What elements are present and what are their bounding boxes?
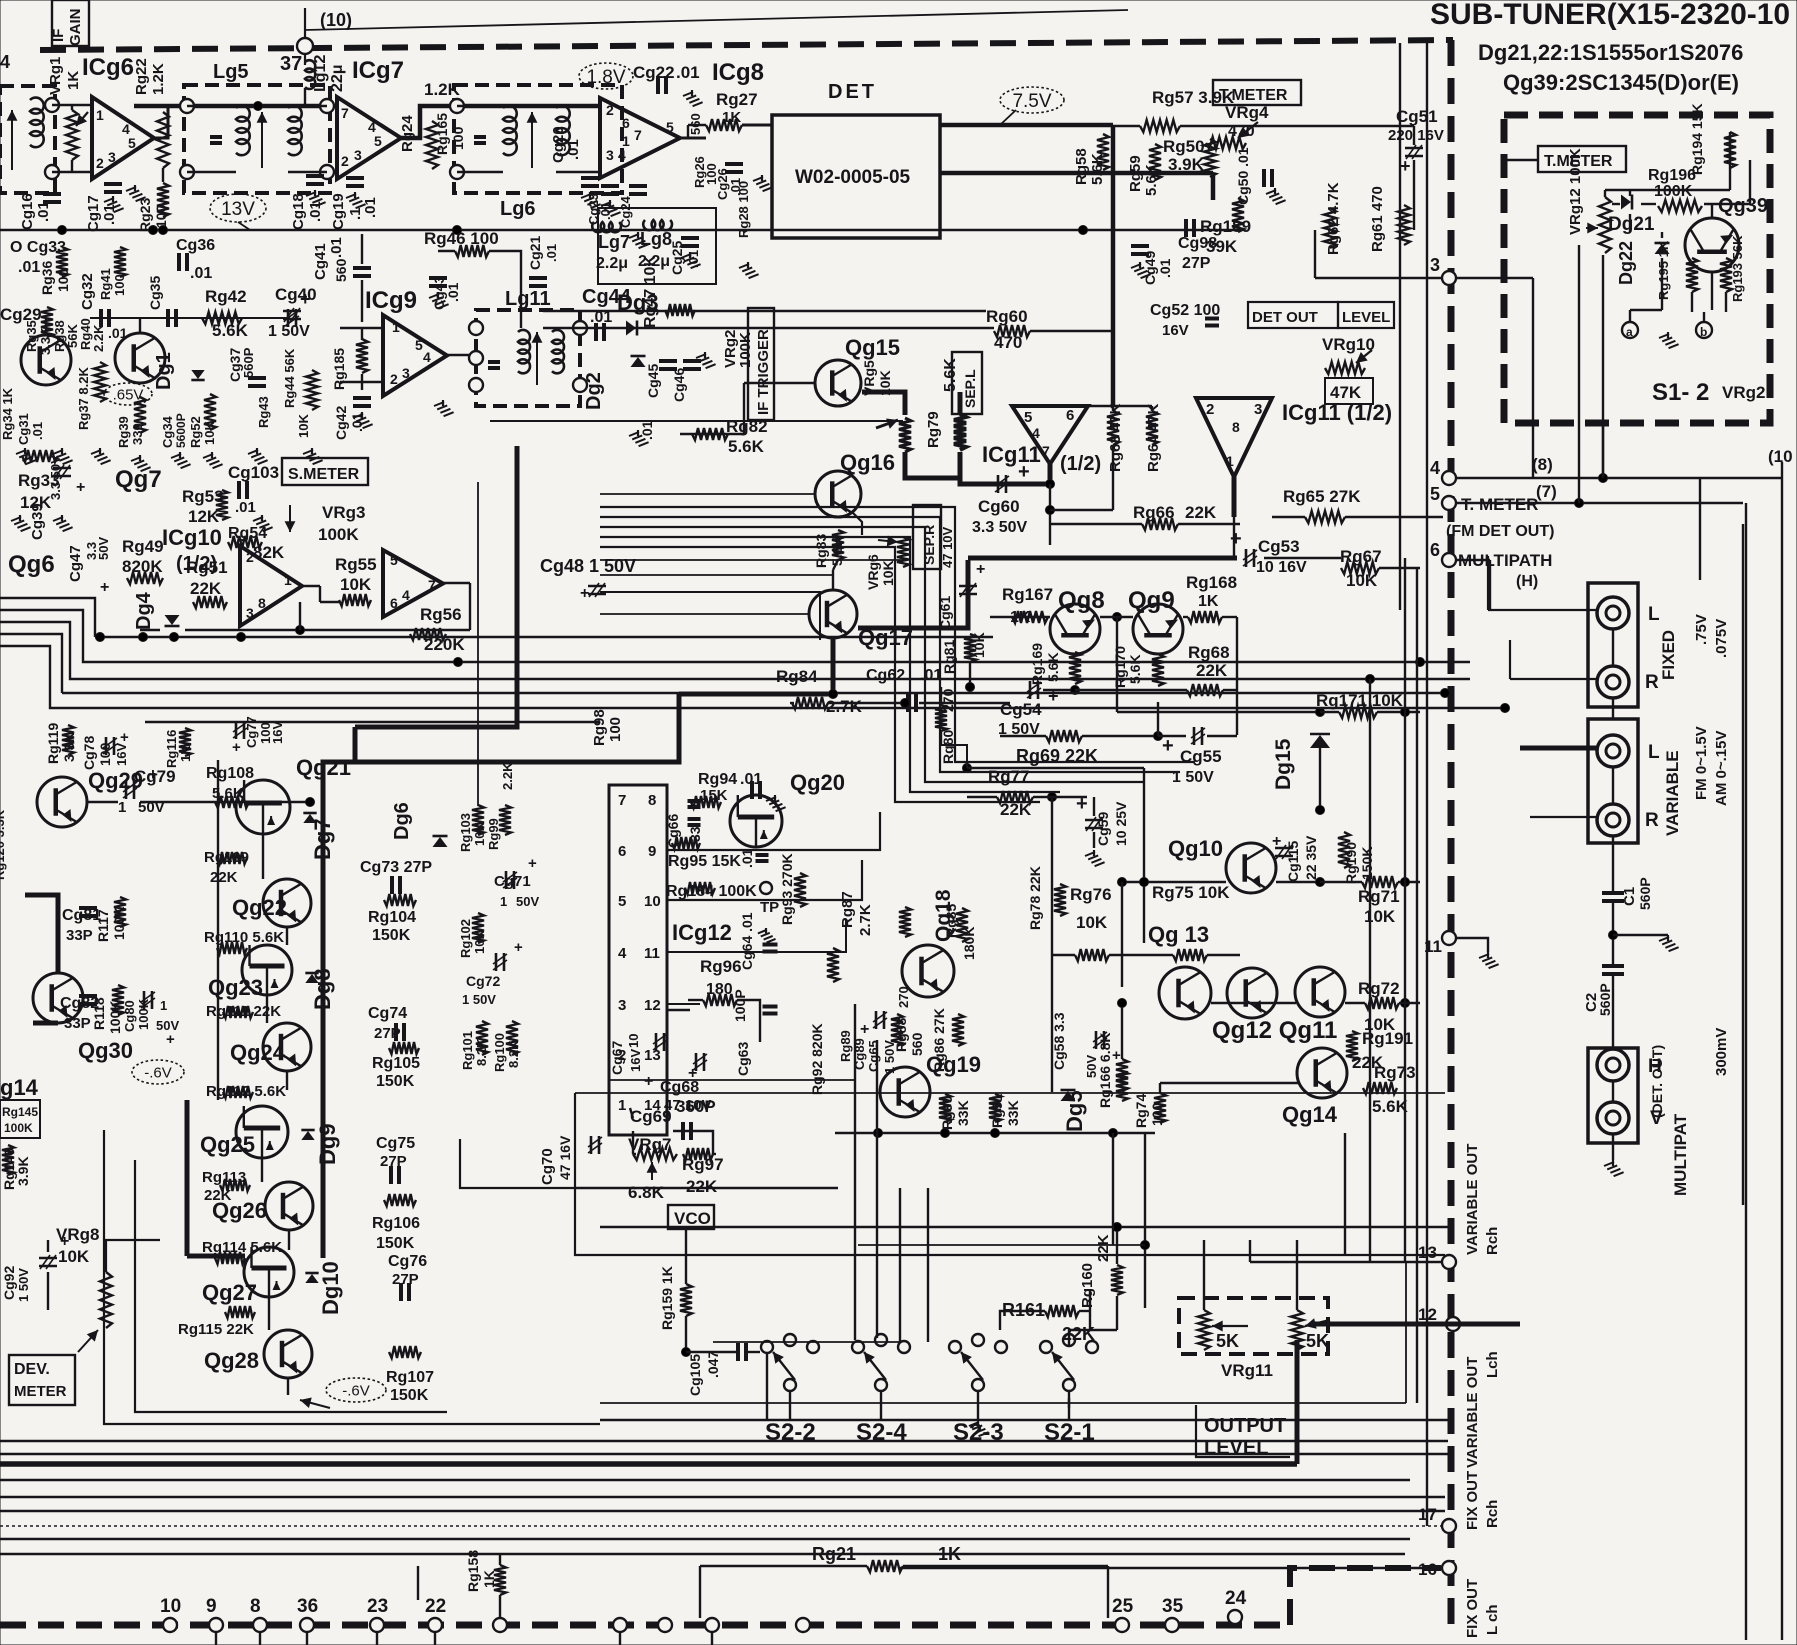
wire Qg8 base row [990,616,1050,618]
terminal Lg11 d [573,321,587,335]
ground S2-3 [977,1391,979,1420]
resistor Rg110 [217,942,247,954]
svg-text:Dg6: Dg6 [391,802,413,840]
svg-text:10K: 10K [1076,913,1108,932]
resistor Rg185 [356,339,368,373]
svg-text:7: 7 [634,127,642,143]
wire band 6 dotted [0,1525,1443,1527]
svg-text:IF: IF [50,29,67,42]
capacitor Cg46 [683,361,701,369]
capacitor Cg65 hatched [873,1011,887,1029]
label T.METER S1 box [1538,146,1626,172]
svg-text:10K: 10K [202,421,217,445]
svg-text:.01: .01 [639,420,655,440]
svg-text:Cg64 .01: Cg64 .01 [739,912,755,970]
transistor Qg15 [815,360,861,406]
svg-text:1: 1 [96,107,104,123]
svg-text:.01: .01 [565,139,582,160]
transistor Qg7 left [115,333,165,383]
wire mid h2 [543,327,994,329]
resistor Rg94 [691,796,721,808]
wire right vert from pin7 [1742,524,1744,1205]
resistor Rg109 [217,852,247,864]
wire bundle down right [954,507,956,540]
resistor Rg95 [672,837,700,849]
wire ICg11 apex thick [1048,464,1053,484]
voltage bubble 13V [210,194,266,222]
coil Lg11 primary [518,330,530,373]
svg-text:Dg2: Dg2 [583,372,605,410]
svg-text:16V: 16V [114,743,129,766]
wire band thick [0,1461,1297,1467]
transistor Qg17 [809,590,857,638]
terminal bus 25 [1115,1618,1129,1632]
svg-text:Rg73: Rg73 [1374,1063,1416,1082]
wire VRg12 down [1602,255,1604,478]
svg-text:100: 100 [1149,1102,1165,1126]
diode Dg4 [165,615,180,626]
wire Qg rows lower [1160,1082,1298,1084]
switch S2-4 [852,1341,864,1353]
node bus dots [96,633,105,642]
wire Rg63 tops [1088,405,1152,407]
svg-text:Cg41: Cg41 [312,243,329,280]
wire vert x1427 [1426,43,1428,1526]
jack FIXED R [1597,666,1629,698]
svg-text:Lg7: Lg7 [598,232,630,252]
svg-text:1K: 1K [1198,593,1219,610]
svg-text:300mV: 300mV [1713,1028,1730,1076]
svg-text:2.2μ: 2.2μ [638,253,670,270]
ground Cg18 [306,190,326,206]
wire band 7 [0,1538,1410,1540]
wire h 1245 [858,1244,1145,1246]
terminal bus x4 [705,1618,719,1632]
svg-text:Cg39: Cg39 [29,503,46,540]
svg-text:Rg64 47K: Rg64 47K [1145,403,1162,472]
svg-text:3: 3 [1254,401,1262,418]
svg-text:100K: 100K [107,1001,123,1034]
svg-text:DET OUT: DET OUT [1252,309,1318,326]
svg-text:100K: 100K [111,907,127,940]
capacitor Cg24 [629,186,647,194]
svg-text:330: 330 [130,423,145,445]
svg-text:6: 6 [1066,407,1074,424]
svg-text:Rg100: Rg100 [492,1033,507,1072]
capacitor Cg25 [681,238,699,246]
svg-text:Cg72: Cg72 [466,973,500,989]
label OUTPUT LEVEL box [1196,1405,1290,1457]
wire thick fet cluster join [187,1254,245,1259]
terminal a [1622,322,1638,338]
svg-text:Rg54: Rg54 [228,525,267,542]
capacitor Cg55 hatched [1191,727,1205,745]
resistor Rg68 [1187,684,1223,696]
svg-text:+: + [644,1073,653,1090]
wire fet cluster verticals [261,1158,263,1182]
svg-text:Cg21: Cg21 [527,236,543,270]
svg-text:Rg105: Rg105 [372,1055,420,1072]
voltage bubble 7.5V [1000,87,1064,113]
svg-text:Rg94: Rg94 [698,771,737,788]
wire fixed R feed [1509,640,1511,679]
ground row a [16,448,36,464]
wire S1-2 internals [1612,203,1620,205]
svg-text:Rg84: Rg84 [776,667,818,686]
svg-text:Rg107: Rg107 [386,1369,434,1386]
svg-text:Cg76: Cg76 [388,1253,427,1270]
node 13V e [1079,226,1088,235]
resistor Rg36 [56,247,68,277]
wire thick out bus [968,556,1237,561]
resistor Rg194 [1724,132,1736,168]
svg-text:100P: 100P [732,989,748,1022]
wire pin3 [1315,277,1443,279]
capacitor Cg35 [168,309,176,327]
wire Rg96 loop [688,999,703,1001]
svg-text:Rg56: Rg56 [420,605,462,624]
wire band 8 [0,1553,1405,1555]
svg-text:1: 1 [500,894,507,909]
wire long h 560 [600,559,905,561]
svg-text:GAIN: GAIN [67,9,84,47]
terminal Lg11 b [469,351,483,365]
resistor Rg41 [114,247,126,277]
capacitor Cg64 [763,945,778,952]
resistor Rg59 [1149,144,1161,180]
ground ICg6 pin [126,185,146,201]
svg-text:Rg39: Rg39 [116,416,131,448]
wire pot2 thick down [1295,1340,1300,1464]
svg-text:Qg22: Qg22 [232,895,287,920]
svg-text:Rg184 100K: Rg184 100K [666,883,757,900]
svg-text:560P: 560P [1637,877,1653,910]
wire pin13 row [1250,1261,1443,1263]
wire box lines h [575,1187,838,1189]
wire 13V row [90,317,290,319]
test point TP [760,882,772,894]
label SEP.L box [952,352,982,414]
wire arrow Lg11 [532,332,543,385]
svg-text:Cg55: Cg55 [1180,747,1222,766]
wire Qg39 line [1578,245,1580,503]
terminal Lg5 bl [180,165,194,179]
op-amp ICg8 [600,98,680,178]
svg-text:Cg59: Cg59 [1095,812,1111,846]
svg-text:Rg44 56K: Rg44 56K [282,348,297,408]
svg-text:+: + [860,1021,869,1038]
svg-text:2: 2 [96,155,104,171]
ground Cg25 [681,252,701,268]
svg-text:5.6K: 5.6K [1045,652,1061,682]
ground Cg103 [253,515,273,531]
resistor Rg108 [215,796,249,808]
svg-text:Rg27: Rg27 [716,90,758,109]
resistor Rg49 [127,572,163,584]
svg-text:+: + [76,479,85,496]
svg-text:22K: 22K [686,1177,718,1196]
svg-text:Dg1: Dg1 [153,352,175,390]
svg-text:470: 470 [994,333,1022,352]
svg-text:Cg60: Cg60 [978,497,1020,516]
svg-text:180K: 180K [961,927,977,960]
svg-text:5K: 5K [1306,1331,1329,1351]
svg-text:3.3K: 3.3K [61,732,77,762]
wire pin16 row [900,1567,1443,1569]
svg-text:5.6K: 5.6K [728,437,765,456]
IF transformer Lg11 dashed box [476,310,580,406]
transistor Qg18 [902,945,954,997]
svg-text:DEV.: DEV. [14,1361,50,1378]
svg-text:VARIABLE OUT: VARIABLE OUT [1464,1144,1481,1255]
svg-text:.075V: .075V [1713,619,1730,658]
wire thick top corner [355,446,517,727]
svg-text:2: 2 [246,549,254,565]
svg-text:Qg7: Qg7 [115,466,162,493]
wire Rg65 row [1272,516,1305,518]
svg-text:Rg22: Rg22 [133,58,150,95]
wire node 10 drop [304,8,306,65]
wire Rg57 row [1113,125,1140,127]
svg-text:VRg5: VRg5 [861,360,877,396]
resistor Rg23 [157,183,169,217]
ground Cg26b [753,175,773,191]
capacitor Cg69 [683,1122,691,1140]
svg-text:Rg109: Rg109 [204,849,249,866]
svg-text:4: 4 [1430,458,1440,478]
svg-text:27P: 27P [392,1271,419,1288]
resistor Rg84 [792,697,828,709]
wire out bus thick [134,104,330,109]
ground row b [53,448,73,464]
capacitor Cg17 [104,184,122,192]
svg-text:33P: 33P [66,927,93,944]
wire Cg41 stub [361,234,363,264]
wire icg10b vert [469,583,471,630]
wire vert x1400t [1399,43,1401,610]
resistor Rg83 [832,530,844,560]
svg-text:1 50V: 1 50V [268,323,310,340]
svg-text:Cg49: Cg49 [1142,251,1158,285]
terminal bus 35 [1165,1618,1179,1632]
svg-text:10 16V: 10 16V [1256,559,1307,576]
svg-text:1.2K: 1.2K [150,63,167,95]
svg-text:Cg35: Cg35 [147,276,163,310]
terminal bus 24 [1228,1610,1242,1624]
svg-text:22K: 22K [190,579,222,598]
ground row e [171,452,191,468]
svg-text:FM 0~1.5V: FM 0~1.5V [1693,726,1710,800]
svg-text:Rg78 22K: Rg78 22K [1027,866,1043,930]
wire Dg15 down [1319,748,1321,810]
resistor Rg55 [339,594,371,606]
resistor Rg171 [1339,706,1377,718]
svg-text:(FM DET OUT): (FM DET OUT) [1446,523,1554,540]
resistor Rg105 [389,1042,419,1054]
svg-text:Qg 13: Qg 13 [1148,922,1209,947]
svg-text:Lg11: Lg11 [505,288,551,310]
svg-text:Dg10: Dg10 [318,1261,343,1315]
wire Qg19 bottom row [835,1132,1155,1134]
svg-text:5: 5 [1024,409,1032,426]
svg-text:22: 22 [425,1596,446,1617]
wire R161 loop [1000,1311,1045,1330]
wire staircase bundle [600,507,1195,762]
svg-text:7: 7 [1042,443,1050,459]
ground row h [303,448,323,464]
capacitor Cg73 [392,876,400,894]
transistor Qg12 [1227,968,1277,1018]
svg-text:Qg8: Qg8 [1058,587,1105,614]
node 13V c [159,226,168,235]
svg-text:4: 4 [423,349,431,365]
capacitor Cg19 [346,178,364,186]
wire bus stubs down [215,1632,217,1645]
resistor Rg170 [1152,654,1164,686]
wire Rg80 node [963,764,972,773]
svg-text:10K: 10K [1346,571,1378,590]
wire Rg160 v [1116,1227,1118,1264]
svg-text:Rg41: Rg41 [98,268,113,300]
svg-text:Rg55: Rg55 [335,555,377,574]
resistor Rg51 [193,596,227,608]
svg-text:.01: .01 [190,265,212,282]
svg-text:50V: 50V [1084,1055,1099,1078]
capacitor Cg62 [908,694,916,712]
svg-text:47 10V: 47 10V [940,526,955,568]
svg-text:.047: .047 [705,1351,721,1378]
svg-text:220 16V: 220 16V [1388,127,1444,144]
svg-text:100: 100 [607,717,624,742]
resistor Rg160 [1111,1265,1123,1295]
coil Lg7 [592,222,621,232]
capacitor Cg67 hatched [653,1033,667,1051]
resistor Rg69 [1046,730,1082,742]
svg-text:ICg7: ICg7 [352,57,404,84]
svg-text:150K: 150K [372,927,411,944]
wire vert x1417 [1416,568,1418,1403]
svg-text:Rg92 820K: Rg92 820K [809,1023,825,1095]
svg-text:Cg70: Cg70 [539,1148,556,1185]
svg-text:5600P: 5600P [174,413,188,448]
svg-text:Cg65: Cg65 [866,1040,881,1072]
jack FIXED L [1597,597,1629,629]
svg-text:Rg98: Rg98 [591,709,608,746]
resistor Rg158 [494,1565,506,1595]
capacitor Cg76 [401,1283,409,1301]
svg-text:Rg24: Rg24 [399,115,416,152]
svg-text:S.METER: S.METER [288,466,360,483]
svg-text:Rg91: Rg91 [989,1094,1005,1128]
svg-text:Cg42: Cg42 [333,406,349,440]
svg-text:1K: 1K [481,1570,497,1588]
svg-text:+: + [300,289,311,309]
wire verticals right cluster [1344,1133,1346,1255]
capacitor Cg21 [529,278,547,286]
capacitor Cg42 [353,398,371,406]
coil Lg6 primary [503,106,517,156]
svg-text:ICg11 (1/2): ICg11 (1/2) [1282,400,1392,425]
resistor Rg113 [220,1179,250,1191]
transistor Qg22 [263,879,311,927]
svg-text:Qg21: Qg21 [296,755,351,780]
svg-text:Rg119: Rg119 [45,723,61,764]
resistor Rg46 [455,245,489,257]
svg-text:560: 560 [333,258,349,282]
resistor Rg39 [134,397,146,433]
wire Qg10 row [1122,881,1226,883]
svg-text:ICg8: ICg8 [712,59,764,86]
resistor Rg24 [426,121,438,169]
terminal Lg5 br [320,165,334,179]
wire Qg29 row [87,801,118,803]
svg-text:10 25V: 10 25V [1113,801,1129,846]
svg-text:Qg19: Qg19 [926,1052,981,1077]
transistor Qg9 [1133,604,1183,654]
svg-text:4: 4 [1032,425,1040,441]
node 13V b [149,226,158,235]
capacitor Cg71 hatched [503,871,517,889]
terminal bus 23 [370,1618,384,1632]
svg-text:1 50V: 1 50V [462,992,496,1007]
svg-text:Rg80: Rg80 [940,730,956,764]
svg-text:-.6V: -.6V [342,1382,370,1399]
svg-text:+: + [148,765,158,784]
svg-text:Cg46: Cg46 [671,368,687,402]
svg-text:1: 1 [392,319,400,335]
wire Cg51 [1240,125,1414,127]
wire Rg22 bottom [162,168,164,182]
wire VRg8 wiring [47,1240,49,1252]
svg-text:Rg115 22K: Rg115 22K [178,1321,254,1338]
capacitor Cg82 [79,996,97,1004]
coil Lg5 secondary [288,106,302,156]
capacitor 1 50V ecap [283,308,301,322]
resistor Rg79 thick [958,452,963,478]
svg-text:13V: 13V [221,199,255,220]
svg-text:ICg6: ICg6 [82,54,134,81]
svg-text:Lg8: Lg8 [640,229,672,249]
svg-text:Dg4: Dg4 [133,591,155,630]
svg-text:Qg15: Qg15 [845,335,900,360]
capacitor Cg59 hatched [1085,817,1103,831]
svg-text:+: + [1400,156,1411,176]
svg-text:Rg116: Rg116 [164,730,179,768]
wire mid bus lines [95,636,993,638]
svg-text:Qg23: Qg23 [208,975,263,1000]
svg-text:2: 2 [606,102,614,118]
diode Dg15 [1310,734,1330,748]
svg-text:1 50V: 1 50V [16,1268,31,1302]
svg-text:.01: .01 [739,848,755,868]
capacitor Cg94cap [752,781,760,799]
svg-text:1: 1 [622,133,630,149]
svg-text:Rg61 470: Rg61 470 [1369,186,1386,252]
op-amp ICg10 second [383,550,443,617]
potentiometer VRg11 b [1291,1310,1303,1350]
wire top dashed border [40,40,1453,50]
svg-text:Rg160: Rg160 [1079,1263,1096,1308]
capacitor Cg18 [306,176,324,184]
wire Rg71 row [1320,881,1362,883]
svg-text:Rg159 1K: Rg159 1K [659,1266,675,1330]
svg-text:Qg6: Qg6 [8,551,55,578]
svg-text:Rg51: Rg51 [186,558,228,577]
svg-text:1: 1 [618,1097,626,1114]
capacitor Cg68 hatched [693,1053,707,1071]
resistor Rg33 [22,450,58,462]
svg-text:100K: 100K [4,1121,33,1135]
